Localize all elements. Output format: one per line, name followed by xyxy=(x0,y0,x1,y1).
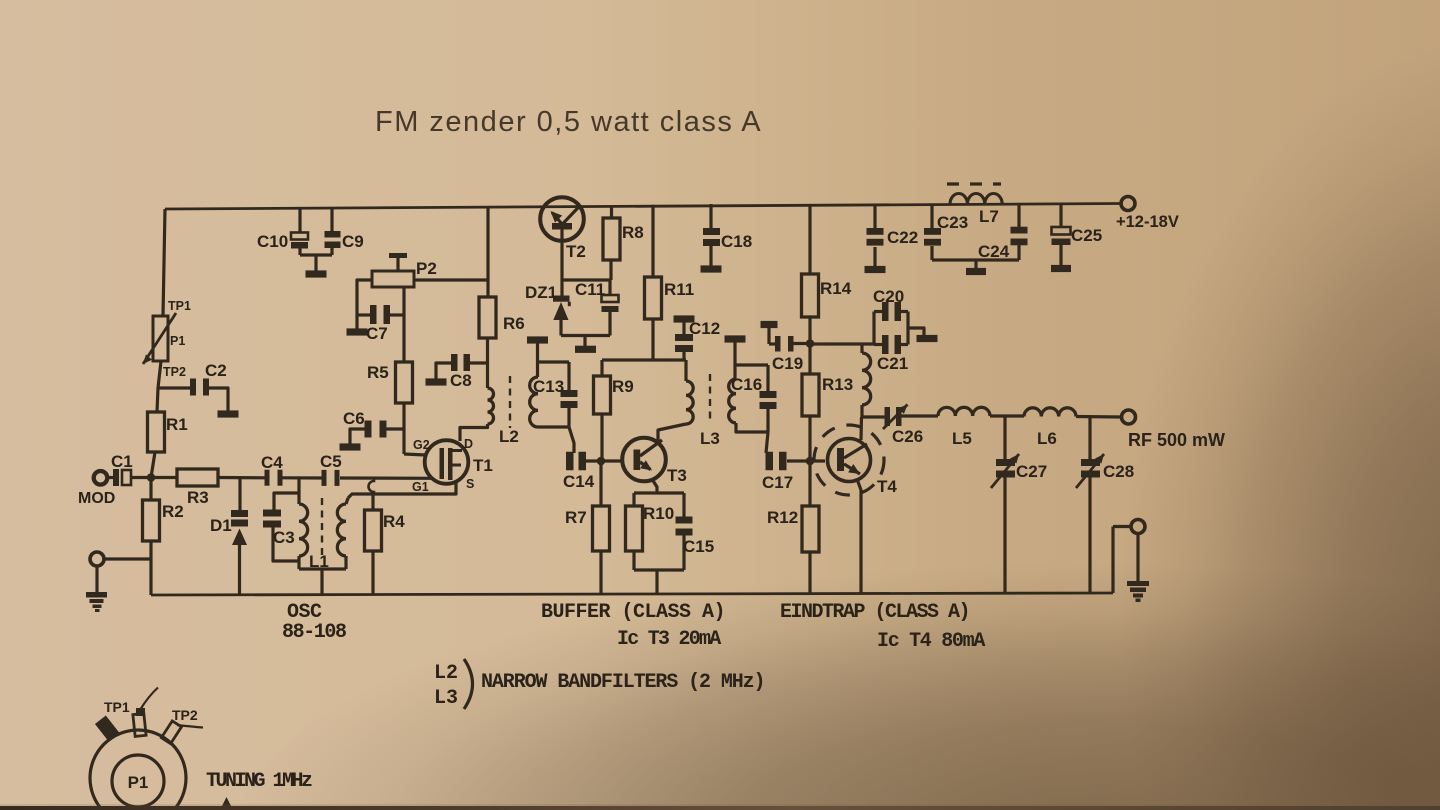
svg-text:C6: C6 xyxy=(343,409,365,428)
svg-text:EINDTRAP (CLASS A): EINDTRAP (CLASS A) xyxy=(780,601,969,624)
svg-text:L1: L1 xyxy=(309,552,329,571)
svg-text:C20: C20 xyxy=(873,287,904,306)
svg-text:R7: R7 xyxy=(565,508,587,527)
svg-text:C23: C23 xyxy=(937,213,968,232)
svg-text:R2: R2 xyxy=(162,502,184,521)
svg-text:C12: C12 xyxy=(689,319,720,338)
svg-text:C27: C27 xyxy=(1016,462,1047,481)
svg-text:S: S xyxy=(466,477,474,491)
svg-text:R6: R6 xyxy=(503,314,525,333)
svg-text:RF 500 mW: RF 500 mW xyxy=(1128,430,1225,450)
svg-text:TP1: TP1 xyxy=(168,299,191,313)
svg-text:C16: C16 xyxy=(731,375,762,394)
svg-text:BUFFER (CLASS A): BUFFER (CLASS A) xyxy=(541,601,725,624)
svg-text:C5: C5 xyxy=(320,452,342,471)
svg-text:R11: R11 xyxy=(664,280,694,299)
svg-text:T3: T3 xyxy=(667,466,687,485)
svg-text:+12-18V: +12-18V xyxy=(1116,213,1179,231)
svg-text:Ic T3 20mA: Ic T3 20mA xyxy=(617,628,721,651)
svg-text:C14: C14 xyxy=(563,472,595,491)
svg-text:G2: G2 xyxy=(413,438,430,452)
svg-text:C25: C25 xyxy=(1071,226,1102,245)
svg-text:88-108: 88-108 xyxy=(282,621,346,644)
svg-text:C13: C13 xyxy=(533,377,564,396)
svg-text:C15: C15 xyxy=(683,537,714,556)
svg-text:L2: L2 xyxy=(499,427,519,446)
svg-text:R8: R8 xyxy=(622,223,644,242)
svg-text:C22: C22 xyxy=(887,228,918,247)
svg-text:C1: C1 xyxy=(111,452,133,471)
svg-text:MOD: MOD xyxy=(78,490,115,507)
svg-text:C24: C24 xyxy=(978,242,1010,261)
svg-text:R14: R14 xyxy=(820,279,852,298)
svg-text:R1: R1 xyxy=(166,415,188,434)
svg-text:TP1: TP1 xyxy=(104,699,130,715)
svg-text:C7: C7 xyxy=(366,324,388,343)
svg-text:R9: R9 xyxy=(612,377,634,396)
svg-text:C9: C9 xyxy=(342,232,364,251)
svg-text:C2: C2 xyxy=(205,361,227,380)
svg-text:T4: T4 xyxy=(877,477,897,496)
svg-text:Ic T4 80mA: Ic T4 80mA xyxy=(877,630,985,653)
svg-text:L3: L3 xyxy=(700,429,720,448)
svg-text:FM zender 0,5 watt class A: FM zender 0,5 watt class A xyxy=(375,106,762,138)
svg-text:R3: R3 xyxy=(187,488,209,507)
svg-text:NARROW BANDFILTERS (2 MHz): NARROW BANDFILTERS (2 MHz) xyxy=(481,671,764,694)
svg-text:C21: C21 xyxy=(877,354,908,373)
svg-text:R12: R12 xyxy=(767,508,798,527)
svg-text:P1: P1 xyxy=(170,334,185,348)
svg-text:L3: L3 xyxy=(434,687,458,710)
svg-text:L5: L5 xyxy=(952,429,972,448)
svg-text:C4: C4 xyxy=(261,453,283,472)
svg-text:P2: P2 xyxy=(416,259,437,278)
svg-text:L7: L7 xyxy=(979,207,999,226)
svg-text:R4: R4 xyxy=(383,512,405,531)
svg-text:TP2: TP2 xyxy=(172,707,198,723)
svg-text:C26: C26 xyxy=(892,427,923,446)
svg-text:L6: L6 xyxy=(1037,429,1057,448)
svg-text:R10: R10 xyxy=(643,504,674,523)
svg-text:D1: D1 xyxy=(210,516,232,535)
svg-text:T2: T2 xyxy=(566,242,586,261)
svg-text:R13: R13 xyxy=(822,375,853,394)
svg-text:P1: P1 xyxy=(128,773,149,792)
svg-text:R5: R5 xyxy=(367,363,389,382)
svg-text:TP2: TP2 xyxy=(163,365,186,379)
svg-text:L2: L2 xyxy=(434,662,458,685)
svg-text:G1: G1 xyxy=(412,480,429,494)
svg-text:D: D xyxy=(464,437,473,451)
svg-text:C28: C28 xyxy=(1103,462,1134,481)
svg-text:C19: C19 xyxy=(772,354,803,373)
svg-text:C17: C17 xyxy=(762,473,793,492)
svg-text:C10: C10 xyxy=(257,232,288,251)
svg-text:DZ1: DZ1 xyxy=(525,283,557,302)
svg-text:TUNING 1MHz: TUNING 1MHz xyxy=(206,770,312,793)
svg-text:C18: C18 xyxy=(721,232,752,251)
svg-text:C11: C11 xyxy=(575,280,605,299)
svg-text:T1: T1 xyxy=(473,456,493,475)
svg-text:C3: C3 xyxy=(273,528,295,547)
svg-text:C8: C8 xyxy=(450,371,472,390)
